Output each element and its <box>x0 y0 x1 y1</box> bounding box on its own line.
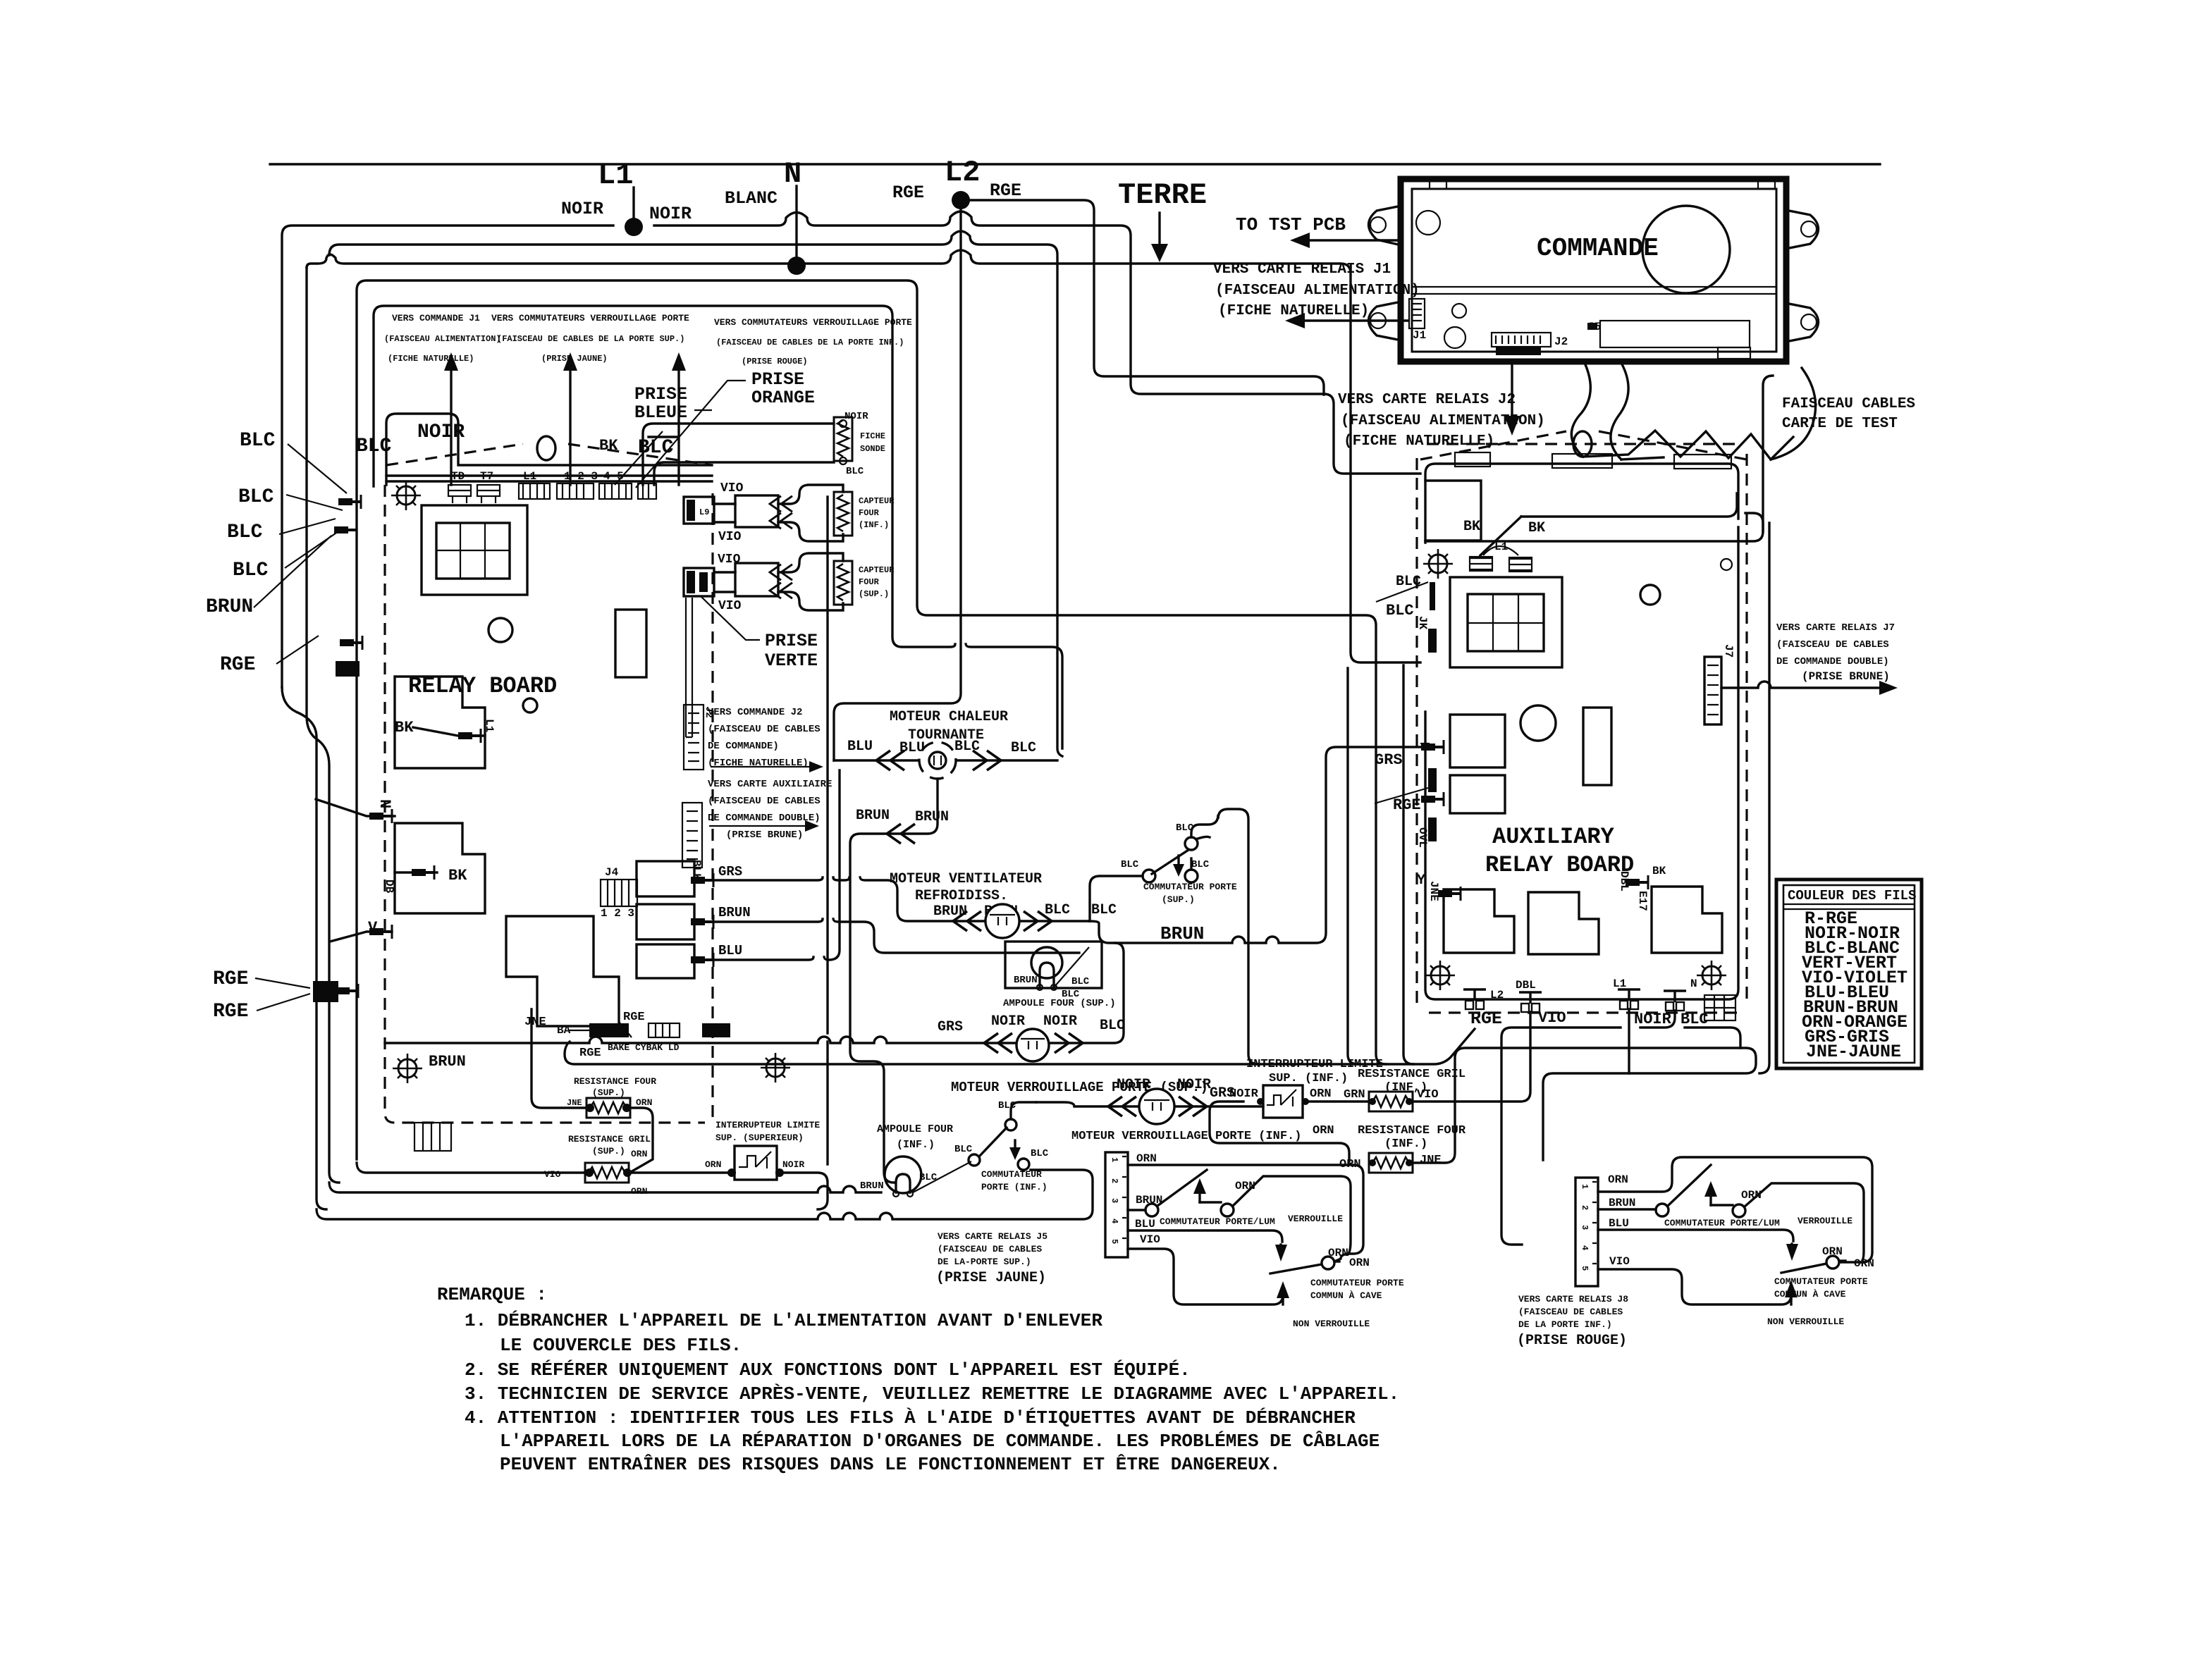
svg-text:(FAISCEAU DE CABLES: (FAISCEAU DE CABLES <box>1776 639 1889 650</box>
wire vertical drop mid <box>1403 665 1413 1064</box>
svg-text:GRN: GRN <box>1344 1088 1365 1102</box>
svg-text:L2: L2 <box>1490 989 1504 1001</box>
svg-text:BLANC: BLANC <box>725 188 778 209</box>
node L2 junction dot <box>952 191 970 209</box>
svg-text:ORN: ORN <box>705 1159 721 1170</box>
svg-text:ORN: ORN <box>1854 1257 1874 1270</box>
capteur four sup connector <box>684 568 714 596</box>
svg-text:BRUN: BRUN <box>206 596 253 618</box>
wire L2 drop to moteur chaleur <box>834 209 961 760</box>
relay board outer box <box>357 280 1376 1159</box>
wire left drop bends <box>282 687 326 1209</box>
svg-text:VERS COMMUTATEURS VERROUILLAGE: VERS COMMUTATEURS VERROUILLAGE PORTE <box>714 317 912 328</box>
relay board edge rail <box>386 476 712 481</box>
relay board display grid <box>422 505 527 595</box>
svg-text:(INF.): (INF.) <box>859 520 889 530</box>
svg-text:1 2 3: 1 2 3 <box>601 907 634 920</box>
svg-text:VIO: VIO <box>1417 1088 1439 1102</box>
svg-text:BRUN: BRUN <box>856 808 890 824</box>
svg-text:VIO: VIO <box>1140 1233 1160 1246</box>
wire fan lines to board <box>254 444 347 664</box>
svg-text:NOIR: NOIR <box>991 1013 1025 1030</box>
svg-text:BLC: BLC <box>356 436 392 457</box>
svg-text:COMMUN À CAVE: COMMUN À CAVE <box>1774 1289 1846 1300</box>
relay board dashed cover cone <box>386 444 712 465</box>
svg-text:COMMUTATEUR: COMMUTATEUR <box>981 1169 1042 1180</box>
wire orn loop <box>1210 1102 1349 1161</box>
svg-text:RELAY BOARD: RELAY BOARD <box>1485 852 1634 878</box>
svg-text:MOTEUR VERROUILLAGE PORTE (INF: MOTEUR VERROUILLAGE PORTE (INF.) <box>1071 1130 1301 1143</box>
wire sensor bus bar <box>686 598 692 737</box>
svg-text:BLC: BLC <box>1091 902 1117 918</box>
capteur four inf arrows <box>735 495 778 527</box>
svg-text:VERROUILLE: VERROUILLE <box>1288 1214 1343 1224</box>
svg-text:BLC: BLC <box>1045 902 1070 918</box>
motor verrouillage inf <box>1139 1089 1174 1124</box>
svg-text:BLC: BLC <box>233 560 269 581</box>
relay board connector row <box>448 483 656 503</box>
svg-text:L1: L1 <box>598 159 633 192</box>
svg-text:BK: BK <box>448 867 467 884</box>
svg-text:ORN: ORN <box>1741 1189 1762 1202</box>
relay board mounts bottom <box>393 1054 422 1083</box>
svg-text:2. SE RÉFÉRER UNIQUEMENT AUX: 2. SE RÉFÉRER UNIQUEMENT AUX FONCTIONS D… <box>465 1359 1191 1381</box>
svg-text:(FAISCEAU DE CABLES: (FAISCEAU DE CABLES <box>708 796 821 807</box>
svg-text:TD: TD <box>451 470 465 483</box>
resistor capteur four sup <box>834 561 852 605</box>
svg-text:BLC: BLC <box>846 466 864 477</box>
svg-text:INTERRUPTEUR LIMITE: INTERRUPTEUR LIMITE <box>715 1120 820 1130</box>
svg-text:RGE: RGE <box>623 1011 645 1024</box>
svg-text:BLU: BLU <box>847 739 873 755</box>
svg-text:SUP. (SUPERIEUR): SUP. (SUPERIEUR) <box>715 1133 804 1143</box>
svg-text:JNE: JNE <box>567 1098 582 1108</box>
svg-text:(FAISCEAU DE CABLES: (FAISCEAU DE CABLES <box>1518 1307 1623 1317</box>
svg-text:(FICHE NATURELLE): (FICHE NATURELLE) <box>388 354 474 364</box>
svg-text:L'APPAREIL LORS DE LA RÉPARATI: L'APPAREIL LORS DE LA RÉPARATION D'ORGAN… <box>500 1431 1380 1452</box>
commande board divider <box>1412 286 1776 288</box>
aux relay shapes bottom <box>1444 889 1514 953</box>
svg-text:REMARQUE :: REMARQUE : <box>437 1284 547 1305</box>
svg-text:(PRISE BRUNE): (PRISE BRUNE) <box>726 829 803 841</box>
svg-text:(PRISE JAUNE): (PRISE JAUNE) <box>936 1270 1046 1286</box>
svg-text:COULEUR DES FILS: COULEUR DES FILS <box>1788 888 1916 903</box>
svg-text:(SUP.): (SUP.) <box>592 1146 625 1156</box>
svg-text:4 5: 4 5 <box>603 470 624 483</box>
svg-text:NOIR: NOIR <box>1117 1077 1150 1093</box>
ampoule four inf bulb <box>885 1156 921 1193</box>
svg-text:BLEUE: BLEUE <box>634 402 687 423</box>
svg-text:BLC: BLC <box>1386 602 1414 619</box>
svg-text:BRUN: BRUN <box>1609 1197 1635 1209</box>
svg-text:RESISTANCE FOUR: RESISTANCE FOUR <box>574 1076 656 1087</box>
wire BLU stub <box>713 770 840 960</box>
wire arrow to prise rouge label <box>649 361 679 485</box>
commande top fixing tabs <box>1430 180 1446 189</box>
svg-text:ORN: ORN <box>636 1097 652 1108</box>
svg-text:1 2 3: 1 2 3 <box>564 470 598 483</box>
svg-text:ORN: ORN <box>1136 1152 1157 1165</box>
svg-text:N: N <box>1690 977 1697 990</box>
svg-text:BRUN: BRUN <box>1014 975 1038 986</box>
resistor capteur four inf <box>834 492 852 536</box>
svg-text:GRS: GRS <box>938 1019 963 1035</box>
svg-text:DBL: DBL <box>1516 979 1536 992</box>
svg-text:NON VERROUILLE: NON VERROUILLE <box>1767 1316 1844 1327</box>
svg-text:BLK: BLK <box>690 860 703 880</box>
svg-text:TO TST PCB: TO TST PCB <box>1236 214 1346 235</box>
svg-text:ORN: ORN <box>631 1149 647 1159</box>
aux board solid outline <box>1425 464 1738 543</box>
svg-text:BRUN: BRUN <box>429 1053 466 1071</box>
svg-text:RGE: RGE <box>579 1047 601 1060</box>
svg-text:ORN: ORN <box>631 1186 647 1197</box>
relay board cover O <box>537 436 555 460</box>
aux board dashed outline <box>1417 444 1747 1013</box>
svg-text:BK: BK <box>1528 520 1545 536</box>
svg-text:COMMUN À CAVE: COMMUN À CAVE <box>1310 1290 1382 1301</box>
svg-text:NOIR: NOIR <box>1043 1013 1077 1030</box>
resistor four inf <box>1369 1153 1413 1173</box>
svg-text:AMPOULE FOUR (SUP.): AMPOULE FOUR (SUP.) <box>1003 998 1116 1009</box>
wire moteur chaleur run <box>834 759 1057 761</box>
svg-text:VERS COMMANDE J2: VERS COMMANDE J2 <box>708 707 802 718</box>
svg-text:VERS CARTE RELAIS J2: VERS CARTE RELAIS J2 <box>1338 392 1516 408</box>
svg-text:VERS CARTE RELAIS J8: VERS CARTE RELAIS J8 <box>1518 1294 1628 1304</box>
svg-text:J1: J1 <box>1413 329 1426 342</box>
svg-text:E17: E17 <box>1636 891 1649 911</box>
wire aux bottom drops <box>1414 1012 1530 1102</box>
svg-text:BRUN: BRUN <box>1160 923 1204 944</box>
aux board top-left block <box>1425 481 1481 541</box>
aux big circle <box>1520 705 1556 741</box>
wire bottom bus C <box>317 1170 1093 1219</box>
svg-text:VERTE: VERTE <box>765 650 818 671</box>
svg-text:(FAISCEAU ALIMENTATION): (FAISCEAU ALIMENTATION) <box>1215 283 1420 299</box>
commande mounting ear bottom-right <box>1786 303 1819 342</box>
capteur four inf connector <box>684 497 714 524</box>
svg-text:BLC: BLC <box>238 486 274 508</box>
aux spade terminals L1 <box>1470 558 1532 570</box>
aux bottom pins <box>1463 989 1486 1009</box>
wire rail RGE from L2 <box>970 200 1324 395</box>
svg-text:L9: L9 <box>699 507 709 517</box>
svg-text:FOUR: FOUR <box>859 508 880 518</box>
svg-text:(PRISE JAUNE): (PRISE JAUNE) <box>541 354 608 364</box>
svg-text:PRISE: PRISE <box>751 369 804 390</box>
commande mounting ear top-right <box>1786 210 1819 249</box>
svg-text:JNE: JNE <box>1420 1154 1442 1167</box>
commutateur porte inf <box>913 1161 971 1192</box>
svg-text:(PRISE BRUNE): (PRISE BRUNE) <box>1802 670 1890 683</box>
svg-text:(SUP.): (SUP.) <box>592 1087 625 1098</box>
node L1 junction dot <box>625 218 643 236</box>
svg-text:BLC: BLC <box>1680 1011 1709 1028</box>
resistor fiche sonde <box>834 417 852 461</box>
capteur four sup arrows <box>735 563 778 596</box>
svg-text:JNE-JAUNE: JNE-JAUNE <box>1806 1042 1901 1062</box>
aux bottom connector <box>1704 995 1735 1020</box>
svg-text:RGE: RGE <box>220 654 255 676</box>
svg-text:JNE: JNE <box>524 1016 546 1029</box>
relay connector J3 right <box>682 803 702 868</box>
commutateur porte commun a cave J8 <box>1781 1264 1826 1273</box>
svg-text:GRS: GRS <box>718 864 742 880</box>
svg-text:SUP. (INF.): SUP. (INF.) <box>1269 1072 1348 1085</box>
wire rail mid <box>329 231 1062 756</box>
commande small circle <box>1416 211 1440 235</box>
wire BRUN stub <box>713 919 1079 953</box>
svg-text:DE COMMANDE): DE COMMANDE) <box>708 741 779 752</box>
commande big circle <box>1642 206 1730 293</box>
svg-text:VERROUILLE: VERROUILLE <box>1798 1216 1852 1226</box>
svg-text:RGE: RGE <box>213 1001 248 1023</box>
aux J7 connector <box>1704 657 1721 724</box>
svg-text:RESISTANCE GRIL: RESISTANCE GRIL <box>1358 1068 1466 1081</box>
svg-text:4: 4 <box>1580 1245 1590 1250</box>
aux mid rects <box>1450 715 1505 767</box>
svg-text:BK: BK <box>1652 865 1666 877</box>
wire arrow to J1 label <box>450 361 452 485</box>
svg-text:BRUN: BRUN <box>718 905 751 920</box>
wire bottom bus A <box>357 1163 828 1209</box>
svg-text:COMMUTATEUR PORTE/LUM: COMMUTATEUR PORTE/LUM <box>1664 1218 1780 1228</box>
svg-text:PRISE: PRISE <box>634 384 687 405</box>
svg-text:(FAISCEAU DE CABLES DE LA PORT: (FAISCEAU DE CABLES DE LA PORTE INF.) <box>716 338 904 347</box>
svg-text:PEUVENT ENTRAÎNER DES RISQUES: PEUVENT ENTRAÎNER DES RISQUES DANS LE FO… <box>500 1454 1281 1475</box>
svg-text:L2: L2 <box>945 156 980 190</box>
relay board bottom connectors <box>414 1123 451 1151</box>
svg-text:CAPTEUR: CAPTEUR <box>859 496 895 506</box>
aux board top tabs <box>1455 452 1490 467</box>
svg-text:ORN: ORN <box>1235 1180 1255 1192</box>
svg-text:1. DÉBRANCHER L'APPAREIL DE L: 1. DÉBRANCHER L'APPAREIL DE L'ALIMENTATI… <box>465 1310 1102 1331</box>
svg-text:CARTE DE TEST: CARTE DE TEST <box>1782 416 1898 432</box>
commande mounting ear bottom-left <box>1369 302 1402 340</box>
svg-text:PORTE (INF.): PORTE (INF.) <box>981 1182 1047 1192</box>
svg-text:NOIR: NOIR <box>1177 1077 1211 1093</box>
motor chaleur tournante <box>919 742 956 779</box>
svg-text:L1: L1 <box>523 470 536 483</box>
svg-text:BLC: BLC <box>1011 740 1036 756</box>
svg-text:RGE: RGE <box>990 180 1021 201</box>
svg-text:1: 1 <box>1110 1157 1119 1162</box>
capteur fiche sonde loop <box>643 424 834 485</box>
svg-text:2: 2 <box>1110 1178 1119 1183</box>
wire test harness cable <box>1571 363 1590 457</box>
svg-text:ORN: ORN <box>1349 1257 1370 1269</box>
svg-text:J2: J2 <box>1554 335 1568 348</box>
wire J2 down arrow <box>1511 362 1513 420</box>
svg-text:ORN: ORN <box>1310 1087 1332 1101</box>
wire relay right drop <box>826 497 828 1164</box>
svg-text:FOUR: FOUR <box>859 577 880 587</box>
commande mounting ear top-left <box>1369 206 1402 245</box>
relay board top edge with NOIR tab <box>386 414 712 485</box>
svg-text:PRISE: PRISE <box>765 631 818 651</box>
svg-text:MOTEUR CHALEUR: MOTEUR CHALEUR <box>890 709 1008 725</box>
svg-text:NON VERROUILLE: NON VERROUILLE <box>1293 1319 1370 1329</box>
svg-text:BLC: BLC <box>1071 976 1090 987</box>
relay relay shape 2 <box>395 823 485 913</box>
svg-text:REFROIDISS.: REFROIDISS. <box>915 888 1008 904</box>
svg-text:BLC: BLC <box>1100 1018 1125 1034</box>
svg-text:BLC: BLC <box>240 430 276 452</box>
svg-text:VIO: VIO <box>544 1169 561 1180</box>
wire J1 arrow <box>1301 319 1408 321</box>
svg-text:FAISCEAU CABLES: FAISCEAU CABLES <box>1782 396 1915 412</box>
svg-text:RGE: RGE <box>1470 1008 1502 1029</box>
svg-text:NOIR: NOIR <box>561 199 603 219</box>
svg-text:DE LA PORTE INF.): DE LA PORTE INF.) <box>1518 1319 1612 1330</box>
aux small circle <box>1721 559 1732 570</box>
svg-text:GRS: GRS <box>1375 751 1403 769</box>
svg-text:VERS COMMANDE J1: VERS COMMANDE J1 <box>392 313 480 323</box>
svg-text:(FAISCEAU DE CABLES: (FAISCEAU DE CABLES <box>938 1244 1042 1254</box>
commutateur porte commun a cave J5 <box>1270 1264 1322 1273</box>
svg-text:COMMUTATEUR PORTE/LUM: COMMUTATEUR PORTE/LUM <box>1160 1216 1275 1227</box>
svg-text:4: 4 <box>1110 1219 1119 1223</box>
svg-text:BLC: BLC <box>227 522 263 543</box>
svg-text:DE COMMANDE DOUBLE): DE COMMANDE DOUBLE) <box>1776 656 1889 667</box>
svg-text:FICHE: FICHE <box>860 431 885 441</box>
svg-text:NOIR: NOIR <box>1229 1087 1259 1101</box>
svg-text:COMMUTATEUR PORTE: COMMUTATEUR PORTE <box>1310 1278 1404 1288</box>
svg-text:T7: T7 <box>480 470 493 483</box>
wire bottom bus B <box>329 1183 881 1192</box>
svg-text:VERS COMMUTATEURS VERROUILLAGE: VERS COMMUTATEURS VERROUILLAGE PORTE <box>491 313 689 323</box>
wire to resistance gril inf <box>1305 1100 1368 1102</box>
svg-text:J7: J7 <box>1722 644 1735 658</box>
svg-text:BLC: BLC <box>954 1144 973 1155</box>
svg-text:(FAISCEAU ALIMENTATION): (FAISCEAU ALIMENTATION) <box>384 334 501 344</box>
svg-text:ORN: ORN <box>1339 1158 1361 1171</box>
relay rect shape 4 <box>637 861 694 896</box>
wire RGE return from aux <box>565 1029 1475 1064</box>
svg-text:COMMUTATEUR PORTE: COMMUTATEUR PORTE <box>1774 1276 1868 1287</box>
wire four inf riser <box>1414 1048 1756 1163</box>
svg-text:4. ATTENTION : IDENTIFIER TO: 4. ATTENTION : IDENTIFIER TOUS LES FILS … <box>465 1407 1356 1429</box>
svg-text:RGE: RGE <box>892 183 924 203</box>
wire moteur verrouillage sup run <box>385 943 1124 1043</box>
svg-text:BRUN: BRUN <box>915 809 949 825</box>
svg-text:J4: J4 <box>605 866 619 879</box>
svg-text:MOTEUR VENTILATEUR: MOTEUR VENTILATEUR <box>890 871 1042 887</box>
relay board small circle <box>523 698 537 712</box>
wire BRUN long run to aux <box>1089 747 1420 943</box>
svg-text:VERS CARTE RELAIS J7: VERS CARTE RELAIS J7 <box>1776 622 1895 634</box>
svg-text:BLC: BLC <box>1121 859 1139 870</box>
svg-text:VERS CARTE AUXILIAIRE: VERS CARTE AUXILIAIRE <box>708 779 832 790</box>
svg-text:L1: L1 <box>1494 541 1508 553</box>
relay relay shape 1 <box>395 677 485 768</box>
svg-text:BRUN: BRUN <box>860 1180 884 1192</box>
svg-text:BK: BK <box>599 437 618 455</box>
wire GRS stub to ventilateur <box>713 877 1089 921</box>
svg-text:RESISTANCE GRIL: RESISTANCE GRIL <box>568 1134 651 1145</box>
commande circles lower <box>1452 304 1466 318</box>
wire moteur verrouillage inf run <box>1036 1102 1263 1106</box>
svg-text:BLC: BLC <box>998 1100 1016 1111</box>
svg-text:VERS CARTE RELAIS J5: VERS CARTE RELAIS J5 <box>938 1231 1047 1242</box>
svg-text:VIO: VIO <box>718 530 742 544</box>
relay connector J2 right <box>684 705 703 770</box>
svg-text:RESISTANCE FOUR: RESISTANCE FOUR <box>1358 1124 1466 1137</box>
svg-text:BLU: BLU <box>1135 1218 1155 1230</box>
svg-text:5: 5 <box>1580 1266 1590 1271</box>
svg-text:ORN: ORN <box>1328 1247 1348 1259</box>
svg-text:ORN: ORN <box>1822 1245 1843 1258</box>
svg-text:COMMUTATEUR PORTE: COMMUTATEUR PORTE <box>1143 882 1237 892</box>
svg-text:3: 3 <box>1110 1198 1119 1203</box>
relay board label box <box>374 306 1062 748</box>
svg-text:TERRE: TERRE <box>1118 178 1207 212</box>
aux tall rect <box>1583 708 1611 785</box>
svg-text:5: 5 <box>1110 1239 1119 1244</box>
svg-text:CAPTEUR: CAPTEUR <box>859 565 895 575</box>
legend couleur des fils box <box>1776 880 1922 1068</box>
node N junction dot <box>787 257 806 275</box>
svg-text:3. TECHNICIEN DE SERVICE APRÈ: 3. TECHNICIEN DE SERVICE APRÈS-VENTE, VE… <box>465 1383 1399 1405</box>
svg-text:NOIR: NOIR <box>417 421 465 443</box>
motor verrouillage sup <box>1016 1029 1049 1061</box>
svg-text:BK: BK <box>1463 519 1480 535</box>
svg-text:ORN: ORN <box>1313 1124 1334 1137</box>
svg-text:BLC: BLC <box>1396 574 1421 590</box>
svg-text:1: 1 <box>1580 1184 1590 1189</box>
relay board mount top-left <box>391 481 421 510</box>
svg-text:(PRISE ROUGE): (PRISE ROUGE) <box>1517 1333 1627 1349</box>
svg-text:BLU: BLU <box>1609 1217 1629 1230</box>
svg-text:VIO: VIO <box>718 553 741 567</box>
wire L1 stub <box>632 187 634 221</box>
svg-text:NOIR: NOIR <box>1634 1011 1672 1028</box>
svg-text:N: N <box>784 157 801 191</box>
motor ventilateur <box>985 904 1019 938</box>
aux mount top-left <box>1423 549 1453 579</box>
svg-text:OVL: OVL <box>1416 827 1429 848</box>
aux left edge pin <box>1428 629 1437 653</box>
svg-text:DE COMMANDE DOUBLE): DE COMMANDE DOUBLE) <box>708 813 821 824</box>
svg-text:VIO: VIO <box>1538 1009 1566 1027</box>
svg-text:(PRISE ROUGE): (PRISE ROUGE) <box>742 357 808 366</box>
svg-text:BRUN: BRUN <box>933 903 967 920</box>
svg-text:VERS CARTE RELAIS J1: VERS CARTE RELAIS J1 <box>1213 261 1391 278</box>
text AMPOULE FOUR SUP box <box>1005 942 1102 988</box>
relay board circle <box>489 618 512 642</box>
svg-text:(INF.): (INF.) <box>1384 1137 1427 1151</box>
wire top supply line <box>270 163 1880 165</box>
wire N stub <box>795 186 797 261</box>
wire moteur chaleur brun tap <box>850 779 938 1183</box>
svg-text:(SUP.): (SUP.) <box>859 589 889 599</box>
svg-text:VIO: VIO <box>720 481 744 495</box>
svg-text:L1: L1 <box>1613 977 1626 990</box>
svg-text:RGE: RGE <box>213 968 248 990</box>
aux board dashed cover cone <box>1420 431 1747 459</box>
wire rail NOIR <box>282 211 1420 687</box>
svg-text:AMPOULE FOUR: AMPOULE FOUR <box>877 1123 953 1135</box>
wire rail BLANC <box>307 250 1420 662</box>
commande connector J2 <box>1492 333 1551 347</box>
svg-text:NOIR: NOIR <box>782 1159 804 1170</box>
aux mounts bottom <box>1425 961 1455 990</box>
svg-text:Y: Y <box>1417 872 1425 889</box>
svg-text:(INF.): (INF.) <box>897 1139 935 1151</box>
relay board left pins <box>338 495 361 509</box>
svg-text:2: 2 <box>1580 1205 1590 1210</box>
svg-text:N: N <box>376 799 393 808</box>
